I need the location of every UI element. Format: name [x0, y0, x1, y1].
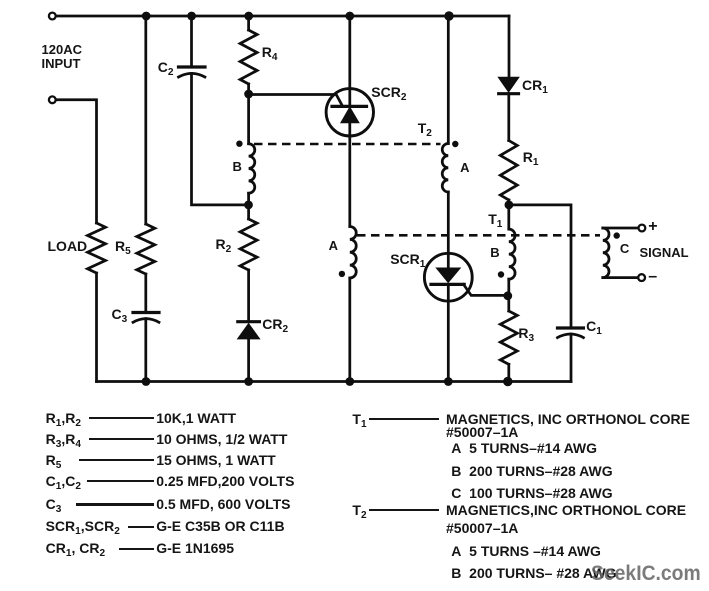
wire: junction to C1 branch: [509, 205, 571, 328]
node: T1-A phasing dot: [339, 271, 345, 277]
label R1: [523, 150, 539, 165]
node: top bus / SCR2: [345, 12, 354, 21]
node: top bus / T2-A: [444, 11, 453, 20]
transformer spec row T1B: [451, 464, 612, 478]
label A (T2 winding): [460, 161, 469, 174]
wire: lower terminal to LOAD branch: [56, 100, 97, 223]
label C3: [112, 307, 128, 322]
node: bottom bus / R5: [142, 377, 151, 386]
wire: CR1 to R1: [507, 94, 510, 141]
transformer spec row T1b: [446, 425, 518, 439]
wire: R1 to T1-B: [507, 200, 510, 229]
transformer T1 winding C: [603, 228, 609, 278]
wire: R3 to bottom bus: [507, 364, 510, 381]
transformer spec row T2b: [446, 521, 518, 535]
wire: right branch drop from top bus: [508, 16, 511, 77]
parts list row C1C2: [46, 474, 81, 489]
label R3: [518, 326, 534, 341]
label CR2: [262, 317, 288, 332]
label CR1: [522, 78, 548, 93]
label R4: [262, 45, 278, 60]
resistor R4: [240, 30, 257, 84]
wire: SCR2 branch top lead: [348, 16, 351, 106]
node: T1-C phasing dot: [614, 232, 620, 238]
label R5: [115, 239, 131, 254]
resistor R2: [240, 219, 257, 270]
terminal: AC input top: [49, 13, 56, 20]
wire: R4 branch top lead: [247, 16, 250, 30]
resistor R5: [137, 224, 155, 274]
node: T1-B phasing dot: [498, 271, 504, 277]
label C2: [158, 60, 174, 75]
wire: T2-A to SCR1: [447, 192, 450, 268]
capacitor C1: [558, 328, 584, 338]
label A (T1 winding): [329, 239, 338, 252]
transformer spec row T1a: [352, 412, 366, 427]
wire: CR2 to bottom bus: [247, 339, 250, 382]
diode CR1: [499, 77, 519, 93]
resistor LOAD: [88, 223, 106, 273]
label -: [648, 269, 657, 285]
wire: top AC bus: [56, 15, 509, 18]
parts list row SCR1SCR2: [46, 519, 120, 534]
node: R4 / SCR2-gate junction: [244, 90, 253, 99]
transformer spec row T2A: [451, 544, 601, 558]
node: top bus / R5: [142, 12, 151, 21]
label B (T1 winding): [490, 246, 499, 259]
wire: SCR1 cathode to bottom bus: [447, 284, 450, 381]
wire: T1-B to R3: [507, 279, 510, 311]
resistor R1: [500, 141, 517, 201]
wire: T1-C bottom to - terminal: [603, 276, 638, 279]
transformer spec row T1C: [451, 486, 612, 500]
wire: gate lead to SCR2: [249, 95, 343, 107]
node: bottom bus / R3: [503, 377, 512, 386]
wire: T2-A branch top lead: [447, 16, 450, 144]
wire: C2 bottom lead to R2 junction: [192, 73, 249, 205]
label +: [648, 219, 657, 235]
node: gate / R3 junction: [503, 291, 512, 300]
transformer spec row T2B: [451, 566, 616, 580]
transformer T1 winding B: [509, 229, 515, 279]
diode CR2: [238, 322, 260, 339]
watermark SeekIC.com: [591, 563, 701, 585]
wire: SCR2 cathode down to T1-A: [348, 123, 351, 227]
node: top bus / R4: [244, 12, 253, 21]
wire: R5 branch top lead: [144, 16, 147, 224]
terminal: signal +: [639, 225, 646, 232]
capacitor C3: [133, 313, 159, 323]
parts list row C3: [46, 497, 62, 512]
transformer T2 winding B: [249, 144, 255, 194]
label T2: [418, 121, 432, 136]
label R2: [216, 237, 232, 252]
wire: bottom bus: [97, 380, 572, 383]
transformer spec row T2a: [352, 503, 366, 518]
dashed coupling line of transformer T2: [254, 143, 441, 146]
wire: SCR1 gate to R3 junction: [464, 284, 508, 295]
wire: C3 to bottom bus: [144, 319, 147, 382]
SCR2: [326, 89, 373, 136]
transformer T1 winding A: [350, 227, 356, 279]
wire: T1-C top to + terminal: [603, 227, 639, 230]
wire: T2-B to junction: [247, 193, 250, 219]
transformer T2 winding A: [442, 144, 448, 192]
node: C2/R2 junction: [244, 201, 253, 210]
wire: R5 to C3: [144, 274, 147, 312]
SCR1: [424, 253, 472, 301]
parts list row R1R2: [46, 411, 81, 426]
label LOAD: [48, 239, 88, 253]
resistor R3: [500, 311, 517, 364]
capacitor C2: [179, 67, 206, 77]
label 120AC INPUT: [42, 43, 82, 72]
label SIGNAL: [640, 246, 689, 259]
dashed coupling line of transformer T1: [357, 234, 600, 237]
wire: LOAD to bottom bus: [95, 273, 98, 382]
terminal: AC input bottom: [49, 96, 56, 103]
label T1: [488, 212, 502, 227]
parts list row R3R4: [46, 432, 81, 447]
label SCR1: [390, 252, 425, 267]
wire: R2 to CR2: [247, 270, 250, 322]
wire: R4 to gate junction: [247, 84, 250, 144]
wire: C1 to bottom bus: [570, 334, 573, 382]
label B (T2 winding): [233, 160, 242, 173]
wire: C2 branch top lead: [190, 16, 193, 67]
node: R1 / C1 junction: [505, 201, 514, 210]
node: T2-B phasing dot: [236, 141, 242, 147]
node: bottom bus / SCR1: [444, 377, 453, 386]
label C (T1 winding): [620, 242, 629, 255]
parts list row R5: [46, 453, 62, 468]
node: top bus / C2: [187, 12, 196, 21]
terminal: signal -: [638, 274, 645, 281]
transformer spec row T1A: [451, 441, 597, 455]
label C1: [586, 319, 602, 334]
node: bottom bus / T1-A: [345, 377, 354, 386]
node: bottom bus / CR2: [244, 377, 253, 386]
node: T2-A phasing dot: [452, 141, 458, 147]
label SCR2: [371, 85, 406, 100]
parts list row CR1CR2: [46, 541, 105, 556]
wire: T1-A to bottom bus: [348, 278, 351, 382]
